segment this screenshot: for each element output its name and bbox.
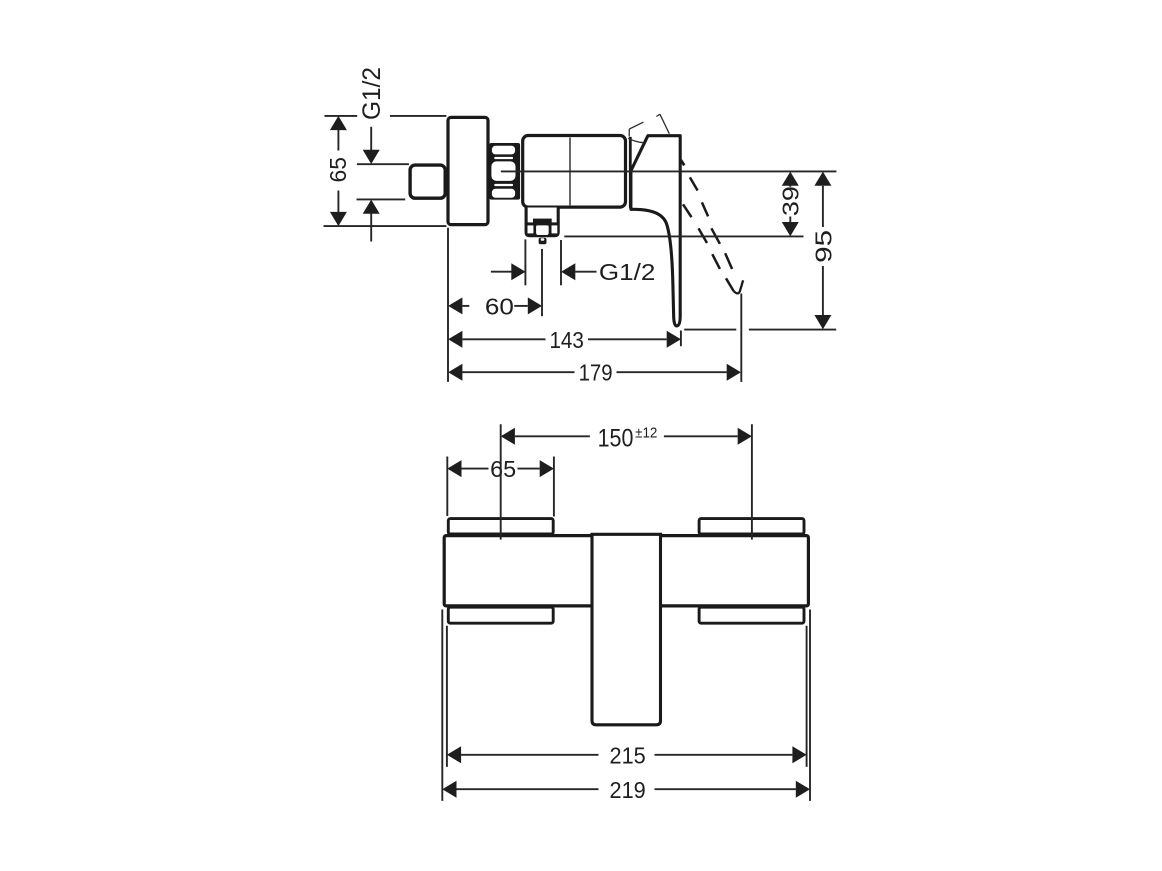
dimension 39 xyxy=(789,185,791,222)
dimension G1/2 inlet xyxy=(370,127,372,242)
extension line outlet axis v2 xyxy=(541,249,543,316)
valve body xyxy=(523,136,626,208)
union nut sliver 1 xyxy=(494,157,513,159)
outlet divider left xyxy=(533,225,536,235)
dimension 95 xyxy=(822,186,824,315)
arrow right 65 bottom xyxy=(540,460,554,477)
arrow left 65 bottom xyxy=(447,460,461,477)
escutcheon wall plate xyxy=(448,117,488,224)
arrow up 95 xyxy=(814,172,831,186)
outlet bottom band xyxy=(526,233,558,236)
body seam line xyxy=(569,138,571,206)
svg-text:G1/2: G1/2 xyxy=(358,67,386,120)
arrow right 60 xyxy=(528,297,542,314)
dimension G1/2 outlet xyxy=(491,271,597,273)
extension line pipe top xyxy=(357,163,409,165)
handle collar xyxy=(629,137,632,208)
dimension 215 xyxy=(461,754,792,756)
svg-text:G1/2: G1/2 xyxy=(599,259,655,285)
arrow down 95 xyxy=(814,315,831,329)
svg-text:39: 39 xyxy=(778,186,804,216)
inlet pipe xyxy=(410,165,445,198)
centerline xyxy=(501,170,837,172)
arrow right 143 xyxy=(667,331,681,348)
body bar xyxy=(444,536,808,606)
arrow left to outlet right xyxy=(561,263,575,280)
extension line outlet right v_out2 xyxy=(560,240,562,285)
arrow left 60 xyxy=(448,297,462,314)
outlet nub xyxy=(539,238,547,245)
extension line 215 left xyxy=(446,626,448,767)
handle xyxy=(631,136,680,326)
outlet band xyxy=(526,222,558,225)
arrow right 150 xyxy=(738,428,752,445)
arrow up to pipe bottom xyxy=(363,200,380,214)
arrow down 39 xyxy=(782,222,799,236)
arrow right 215 xyxy=(792,746,806,763)
svg-text:219: 219 xyxy=(610,777,646,803)
dimension 60 xyxy=(462,305,527,307)
arrow left 143 xyxy=(448,331,462,348)
union nut facet top xyxy=(492,146,515,155)
dimension 150 +-12 xyxy=(515,435,738,437)
dimension 179 xyxy=(462,371,726,373)
dimension 143 xyxy=(462,338,666,340)
top flange right xyxy=(699,519,804,534)
extension line pipe bottom xyxy=(357,198,406,200)
dimension 219 xyxy=(457,788,796,790)
svg-text:179: 179 xyxy=(579,360,613,386)
extension line left escutcheon axis xyxy=(500,424,502,539)
arrow left 215 xyxy=(447,746,461,763)
extension line handle tip v3 xyxy=(680,331,682,347)
extension line escutcheon bottom xyxy=(324,225,447,227)
extension line flange right of left escutcheon xyxy=(553,457,555,517)
union nut facet middle xyxy=(491,161,515,181)
dimension 65 left xyxy=(337,130,339,212)
handle open dashed outline xyxy=(681,160,743,293)
extension line 219 left xyxy=(441,610,443,801)
extension line left vertical v1 xyxy=(447,228,449,382)
svg-text:±12: ±12 xyxy=(635,426,657,442)
outlet window right xyxy=(552,225,558,233)
extension line handle bottom seg2 xyxy=(749,329,836,331)
top flange left xyxy=(448,519,553,534)
extension line outlet bottom right xyxy=(564,235,803,237)
dimension 65 bottom xyxy=(462,468,540,470)
extension line escutcheon top xyxy=(324,115,357,117)
extension line handle bottom seg1 xyxy=(684,329,736,331)
outlet nub notch xyxy=(541,238,545,241)
arrow up 65 xyxy=(330,116,347,130)
svg-text:65: 65 xyxy=(325,157,351,183)
extension line open-handle tip v4 xyxy=(740,294,742,382)
outlet hat top xyxy=(533,219,552,225)
extension line flange left xyxy=(446,457,448,517)
arrow left 150 xyxy=(501,428,515,445)
outlet window middle xyxy=(536,225,548,235)
handle open phantom lines xyxy=(628,114,669,143)
svg-text:60: 60 xyxy=(485,293,514,319)
arrow left 179 xyxy=(448,364,462,381)
svg-text:150: 150 xyxy=(598,426,634,453)
extension line outlet left v_out1 xyxy=(524,239,526,285)
arrow right 219 xyxy=(796,781,810,798)
extension line right escutcheon axis xyxy=(751,424,753,539)
arrow up 39 xyxy=(782,172,799,186)
svg-text:215: 215 xyxy=(610,742,646,768)
handle front view xyxy=(592,534,661,725)
extension line 219 right xyxy=(809,610,811,801)
arrow down 65 xyxy=(330,212,347,226)
extension line 215 right xyxy=(806,626,808,767)
bottom flange right xyxy=(699,607,804,623)
svg-text:95: 95 xyxy=(811,230,837,263)
union nut facet bottom xyxy=(492,189,515,198)
svg-text:143: 143 xyxy=(549,327,584,353)
union nut body xyxy=(489,143,520,200)
arrow down to pipe top xyxy=(363,150,380,164)
arrow right 179 xyxy=(727,364,741,381)
bottom flange left xyxy=(448,607,553,623)
outlet window left xyxy=(528,225,534,233)
outlet divider right xyxy=(549,225,552,235)
union nut sliver 2 xyxy=(494,184,513,186)
outlet box xyxy=(526,208,558,236)
arrow right to outlet left xyxy=(511,263,525,280)
arrow left 219 xyxy=(442,781,456,798)
svg-text:65: 65 xyxy=(490,456,516,482)
